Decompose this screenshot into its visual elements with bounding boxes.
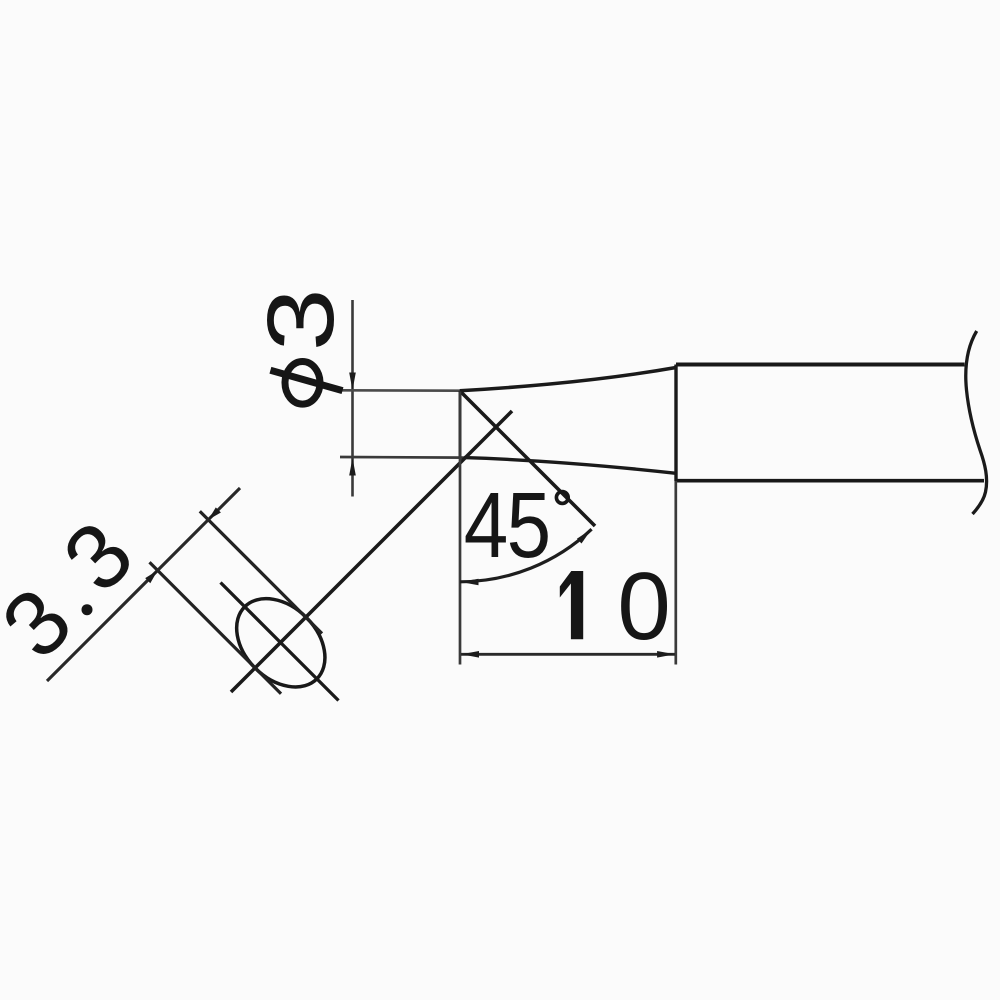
dimension phi3: upper arrowhead (points down)	[349, 373, 356, 391]
text 3.3: decimal point	[82, 604, 93, 615]
text 1 (custom glyph, no foot serif)	[560, 571, 583, 639]
dimension 10: right arrowhead	[657, 651, 675, 658]
svg-text:45: 45	[464, 473, 550, 577]
tip outline: top taper edge	[460, 368, 676, 391]
dimension 10: dimension line	[461, 653, 675, 656]
dimension 3.3: upper arrowhead (points up-right)	[208, 507, 221, 519]
dimension 3.3: lower arrowhead (points down-left)	[145, 570, 157, 583]
dimension 3.3: dimension line	[47, 488, 240, 681]
label phi symbol (circle)	[285, 362, 320, 405]
bevel face axis projection line	[231, 411, 512, 692]
tip bevel face edge-on (vertical)	[459, 391, 462, 458]
degree symbol	[556, 492, 568, 504]
dimension 10: left arrowhead	[461, 651, 479, 658]
bevel cut edge line (45 deg)	[460, 391, 595, 526]
extension line vertical from tip vertex (for 45 and 10 dims)	[459, 392, 462, 665]
extension line top of tip	[341, 389, 460, 392]
45 arc upper arrowhead (points up-right)	[577, 529, 592, 544]
extension line vertical right (for 10 dim)	[674, 481, 677, 665]
shaft left edge	[674, 365, 677, 482]
extension line bottom of tip	[340, 456, 464, 459]
dimension phi3: vertical dimension line	[351, 300, 354, 497]
dimension phi3: lower arrowhead (points up)	[349, 458, 356, 476]
shaft bottom edge	[676, 479, 984, 483]
bevel face minor axis line	[221, 583, 339, 701]
shaft break wavy line	[966, 331, 987, 514]
45 deg angle arc	[460, 529, 592, 582]
shaft top edge	[676, 363, 965, 367]
dimension 3.3: lower extension line (tangent)	[150, 562, 282, 694]
tip outline: bottom taper edge	[464, 458, 676, 474]
45 arc left arrowhead (points left)	[461, 579, 479, 586]
svg-text:0: 0	[617, 553, 670, 660]
dimension 3.3: upper extension line (tangent)	[200, 511, 322, 633]
bevel face ellipse	[219, 581, 342, 704]
label phi symbol (slanted bar)	[270, 370, 342, 390]
svg-text:3: 3	[247, 288, 353, 351]
